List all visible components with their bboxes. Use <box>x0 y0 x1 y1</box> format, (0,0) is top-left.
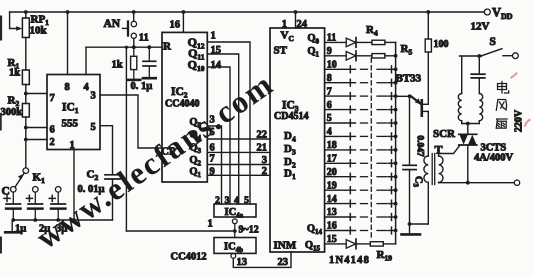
wire to common <box>389 176 396 178</box>
wire 220V bus <box>439 182 515 184</box>
junction pin7 node <box>24 92 28 96</box>
switch S blade <box>482 49 502 56</box>
wire B1 to T primary <box>427 111 429 156</box>
capacitor 0.1u plate bottom <box>143 65 156 67</box>
resistor row 2 <box>372 54 385 58</box>
wire IC4b to INM <box>233 252 291 267</box>
wire AN to R node <box>133 39 135 48</box>
wire AN stub top <box>133 12 135 21</box>
IC U1 555 body <box>47 75 100 150</box>
contact cap3 <box>55 187 61 193</box>
wire diode to R <box>356 55 372 57</box>
wire pin7 to divider <box>26 93 47 95</box>
junction IC4a out <box>233 229 237 233</box>
wire to common <box>389 68 396 70</box>
diode tick <box>349 214 351 221</box>
dash <box>361 122 368 124</box>
T core line 1 <box>431 154 433 185</box>
potentiometer RP1 body <box>22 18 29 38</box>
wire Q10 out <box>325 176 356 178</box>
capacitor C3 plus plate <box>51 203 65 205</box>
diode tick <box>349 79 351 86</box>
svg-text:2: 2 <box>262 166 267 177</box>
diode tick <box>349 160 351 167</box>
dash <box>361 230 368 232</box>
svg-text:100: 100 <box>434 39 449 50</box>
junction pin6 node <box>24 126 28 130</box>
wire RP1 top stub <box>25 12 27 18</box>
junction common line <box>394 148 398 152</box>
wire Q4 to D4 <box>207 138 270 140</box>
wire motor top <box>460 55 482 57</box>
wire pin16 to VDD <box>182 12 184 32</box>
watermark <box>29 65 280 256</box>
wire primary return <box>427 182 429 224</box>
svg-text:3: 3 <box>91 91 96 102</box>
resistor tick <box>391 214 393 221</box>
svg-text:1: 1 <box>282 19 287 30</box>
bubble IC4a output <box>232 219 237 224</box>
junction cap1 bus <box>11 218 15 222</box>
svg-text:16: 16 <box>170 20 181 31</box>
wire cap3 stub <box>57 192 59 204</box>
contact AN top <box>131 21 136 26</box>
junction riser <box>125 46 128 49</box>
resistor tick <box>391 120 393 127</box>
resistor tick <box>391 66 393 73</box>
wire R1 to R2 <box>25 85 27 104</box>
T secondary winding <box>439 156 443 182</box>
wire pin1 to bus <box>73 150 75 221</box>
wire Q6 out <box>325 122 356 124</box>
dash <box>361 135 368 137</box>
junction pin2 node <box>24 138 28 142</box>
dash <box>361 68 368 70</box>
junction common line <box>394 121 398 125</box>
dash <box>377 68 387 70</box>
wire Q1 to D1 <box>207 174 270 176</box>
wire pin6 <box>26 127 47 129</box>
dash <box>361 216 368 218</box>
wire Q7 out <box>325 135 356 137</box>
wire secondary to gate <box>439 145 460 156</box>
wire diode to R <box>356 41 372 43</box>
ground bar <box>5 231 19 234</box>
svg-text:SCR: SCR <box>433 128 456 140</box>
plus sign <box>49 195 55 201</box>
dash <box>377 162 387 164</box>
junction on VDD rail <box>426 10 430 14</box>
UJT base bar <box>420 100 423 115</box>
gate IC4b body <box>214 238 256 254</box>
svg-text:1: 1 <box>208 219 213 230</box>
resistor tick <box>391 106 393 113</box>
dash <box>361 203 368 205</box>
resistor tick <box>391 93 393 100</box>
capacitor C3 minus plate <box>51 207 65 210</box>
wire R to common <box>385 41 396 43</box>
switch AN stem <box>123 27 129 29</box>
capacitor C3 plate top <box>403 164 416 166</box>
wire secondary bottom <box>438 181 440 183</box>
dash <box>377 176 387 178</box>
triac bottom bar <box>459 144 477 146</box>
junction on VDD rail <box>182 10 186 14</box>
svg-text:13: 13 <box>237 257 248 268</box>
ground bar 1k <box>127 79 140 82</box>
junction common line <box>394 135 398 139</box>
wire to 0.1u <box>148 47 150 61</box>
diode tick <box>349 173 351 180</box>
diode D row 2 <box>346 52 356 61</box>
junction common line <box>394 202 398 206</box>
wire emitter <box>396 95 411 97</box>
wire Q4 out <box>325 95 356 97</box>
resistor R2 body <box>22 104 29 118</box>
resistor row 16 <box>370 242 383 246</box>
diode tick <box>349 120 351 127</box>
capacitor 0.1u plate top <box>143 60 156 62</box>
wire to common <box>389 203 396 205</box>
junction common line <box>394 161 398 165</box>
wire C2 to bus <box>112 179 114 220</box>
wire to common <box>389 149 396 151</box>
resistor row 1 <box>372 40 385 44</box>
junction common line <box>394 188 398 192</box>
dash <box>377 149 387 151</box>
junction AN/1k <box>132 45 136 49</box>
capacitor C2 plate bottom <box>105 178 120 180</box>
svg-text:22: 22 <box>257 130 268 141</box>
junction cap3 bus <box>56 218 60 222</box>
wire cap2 to bus <box>34 209 36 220</box>
wire Q3 out <box>325 82 356 84</box>
terminal 220V bottom <box>514 180 519 185</box>
diode tick <box>349 187 351 194</box>
wire Q2 to D2 <box>207 164 270 166</box>
resistor tick <box>391 200 393 207</box>
diode tick <box>349 133 351 140</box>
diode tick <box>349 93 351 100</box>
svg-text:AN: AN <box>104 18 121 30</box>
dash <box>361 95 368 97</box>
wire Q15 out <box>325 243 347 245</box>
scan edge artifacts <box>0 16 2 40</box>
plus sign <box>4 195 10 201</box>
diode tick <box>349 147 351 154</box>
wire pin1/24 to VDD <box>295 12 297 28</box>
wire to common <box>389 122 396 124</box>
wire Q14 out <box>325 230 356 232</box>
wire Q10 to gate <box>207 67 230 204</box>
wire motor to triac <box>467 124 469 135</box>
capacitor C2 plus plate <box>28 203 42 205</box>
wire Q8 out <box>325 149 356 151</box>
capacitor C1 plus plate <box>6 203 20 205</box>
capacitor C1 minus plate <box>6 207 20 210</box>
junction common line <box>394 108 398 112</box>
svg-text:1N4148: 1N4148 <box>329 255 370 266</box>
wire to common <box>389 135 396 137</box>
wire Q5 to gate <box>207 126 221 204</box>
dashed repeat line <box>370 58 372 240</box>
svg-text:7: 7 <box>50 93 55 104</box>
dash <box>361 82 368 84</box>
wire VDD rail <box>10 11 485 13</box>
wire cap1 stub <box>12 192 14 204</box>
wire to common <box>389 109 396 111</box>
wire pin2 <box>26 139 47 141</box>
resistor tick <box>391 227 393 234</box>
svg-text:4A/400V: 4A/400V <box>474 153 514 164</box>
wire NAND out bus <box>126 230 234 232</box>
junction common line <box>394 175 398 179</box>
diode tick <box>349 106 351 113</box>
wire S to terminal <box>503 55 512 57</box>
dash <box>377 203 387 205</box>
wire pin8 to VDD <box>67 12 69 75</box>
wire to common <box>389 162 396 164</box>
junction common line <box>394 229 398 233</box>
wire to common <box>389 189 396 191</box>
svg-text:10k: 10k <box>30 25 48 37</box>
resistor tick <box>391 79 393 86</box>
switch AN actuator bar <box>127 22 129 36</box>
resistor 1k body <box>131 56 137 69</box>
motor aux winding <box>479 94 482 121</box>
wire R to common <box>383 243 395 245</box>
wire pin4 to reset node <box>85 47 87 74</box>
svg-text:ST: ST <box>274 45 288 57</box>
IC U2 CC4040 body <box>162 32 207 182</box>
svg-text:555: 555 <box>62 118 79 130</box>
wire to phase cap <box>478 56 480 74</box>
wire Q2 out <box>325 68 356 70</box>
wire RP1 to R1 <box>25 38 27 71</box>
svg-text:21: 21 <box>257 143 268 154</box>
plus sign <box>26 195 32 201</box>
junction on VDD rail <box>294 10 298 14</box>
capacitor plate bottom <box>471 77 485 79</box>
wire 100 to B2 <box>427 52 429 104</box>
svg-text:6: 6 <box>50 125 55 136</box>
dash <box>377 135 387 137</box>
wire ground bus <box>12 219 112 221</box>
dash <box>361 189 368 191</box>
IC U3 CD4514 body <box>270 28 325 252</box>
contact cap1 <box>11 187 17 193</box>
resistor tick <box>391 160 393 167</box>
junction cap2 bus <box>33 218 37 222</box>
wire primary to gnd node <box>410 223 429 225</box>
svg-text:C: C <box>2 186 10 198</box>
wire R to common <box>385 55 396 57</box>
svg-text:23: 23 <box>278 257 289 268</box>
resistor tick <box>391 147 393 154</box>
terminal VDD <box>484 9 490 15</box>
junction motor/triac <box>466 122 470 126</box>
triac top bar <box>459 133 477 135</box>
svg-text:1: 1 <box>211 31 216 42</box>
wire VDD to 100 <box>427 12 429 39</box>
T core line 2 <box>434 154 436 185</box>
resistor tick <box>391 173 393 180</box>
wire main winding top <box>461 56 463 94</box>
wire to C3 <box>409 96 411 165</box>
wire Q9 out <box>325 162 356 164</box>
svg-text:3: 3 <box>262 155 267 166</box>
junction common line <box>394 94 398 98</box>
wire to common <box>389 95 396 97</box>
diode tick <box>349 227 351 234</box>
capacitor C2 plate top <box>105 174 120 176</box>
wire Q11 out <box>325 189 356 191</box>
resistor R1 body <box>22 70 29 85</box>
wire B2 <box>423 103 429 105</box>
wire IC4a out <box>234 224 236 231</box>
wire RP1 hook <box>10 12 17 29</box>
contact cap2 <box>33 187 39 193</box>
ground bar C3 <box>402 233 421 236</box>
dash <box>377 189 387 191</box>
dash <box>377 230 387 232</box>
svg-text:BT33: BT33 <box>396 73 422 85</box>
terminal 220V top <box>513 53 519 59</box>
svg-text:4: 4 <box>84 82 90 93</box>
diode tick <box>349 66 351 73</box>
watermark flecks <box>512 74 530 126</box>
capacitor plate top <box>471 73 485 75</box>
dash <box>361 162 368 164</box>
junction C3 top <box>408 94 412 98</box>
svg-text:5: 5 <box>91 122 96 133</box>
svg-text:9~12: 9~12 <box>239 225 259 236</box>
dash <box>377 122 387 124</box>
svg-text:24: 24 <box>297 19 308 30</box>
ground bar 0.1u <box>143 77 156 80</box>
wire to common <box>389 216 396 218</box>
junction triac bus <box>466 181 470 185</box>
svg-text:220V: 220V <box>514 109 525 132</box>
wire Q5 out <box>325 109 356 111</box>
wire cap1 to bus <box>12 209 14 220</box>
junction common line <box>394 54 398 58</box>
wire pin3 to CP <box>100 95 162 148</box>
junction common line <box>394 67 398 71</box>
dash <box>361 149 368 151</box>
wire 0.1u to gnd <box>148 66 150 77</box>
wire Q13 out <box>325 216 356 218</box>
junction 0.1u <box>147 45 151 49</box>
dash <box>361 176 368 178</box>
junction C3 primary return <box>408 222 412 226</box>
junction on VDD rail <box>24 10 28 14</box>
capacitor C3 plate bottom <box>403 169 416 171</box>
svg-text:8: 8 <box>65 82 70 93</box>
wire triac to 220V bus <box>467 145 469 183</box>
dash <box>377 216 387 218</box>
dash <box>377 109 387 111</box>
resistor 100 body <box>425 39 431 52</box>
svg-text:2: 2 <box>50 137 55 148</box>
dash <box>361 109 368 111</box>
svg-text:0. 1μ: 0. 1μ <box>131 81 153 92</box>
svg-text:CC4040: CC4040 <box>165 99 199 110</box>
svg-text:R: R <box>163 41 172 53</box>
wire Q12 to gate <box>207 42 250 204</box>
resistor tick <box>391 187 393 194</box>
wire reset to NAND out <box>125 47 127 231</box>
wire to IC4b <box>234 231 236 238</box>
wire cap2 stub <box>34 192 36 204</box>
wire R node <box>86 46 162 48</box>
wire to common <box>389 82 396 84</box>
wire to 1k <box>133 47 135 56</box>
svg-text:300k: 300k <box>1 107 23 118</box>
wire Q1 out <box>325 55 347 57</box>
svg-text:7: 7 <box>210 154 215 165</box>
svg-text:12V: 12V <box>471 21 490 33</box>
motor main winding <box>458 94 461 121</box>
wire ground stub <box>11 220 13 232</box>
svg-text:0.047: 0.047 <box>415 135 425 157</box>
capacitor C2 minus plate <box>28 207 42 210</box>
wire cap to aux winding <box>478 78 480 94</box>
svg-text:S: S <box>490 36 496 48</box>
wire Q11 to gate <box>207 54 238 204</box>
svg-text:INM: INM <box>274 240 297 252</box>
wire Q12 out <box>325 203 356 205</box>
diode tick <box>349 200 351 207</box>
diode D row 1 <box>346 38 356 47</box>
label fan (dian feng shan) <box>496 82 509 129</box>
contact AN bottom <box>131 33 136 38</box>
wire B1 <box>423 110 429 112</box>
junction cap/switch <box>477 54 481 58</box>
svg-text:CC4012: CC4012 <box>171 252 207 263</box>
bubble IC4b output <box>231 254 236 259</box>
svg-text:CD4514: CD4514 <box>274 111 308 122</box>
junction common line <box>394 215 398 219</box>
svg-text:1k: 1k <box>112 60 123 71</box>
svg-text:11: 11 <box>139 33 149 44</box>
junction common line <box>394 81 398 85</box>
wire common collector line <box>395 42 397 244</box>
wire motor bottom <box>462 123 480 125</box>
junction pin1 bus <box>72 218 76 222</box>
wire C3 to gnd <box>409 170 411 234</box>
wire diode to R <box>356 243 370 245</box>
wire cap3 to bus <box>57 209 59 220</box>
wire Q3 to D3 <box>207 151 270 153</box>
wire to common <box>389 230 396 232</box>
junction on VDD rail <box>66 10 70 14</box>
svg-text:1k: 1k <box>9 68 20 79</box>
diode D row 16 <box>346 240 356 249</box>
resistor tick <box>391 133 393 140</box>
dash <box>377 82 387 84</box>
dash <box>377 95 387 97</box>
wire R2 to K1 <box>25 117 27 168</box>
contact K1 common <box>23 168 29 174</box>
gate IC4a body <box>214 204 256 217</box>
wire 1k to gnd <box>133 70 135 79</box>
wire pin5 to C2 <box>100 126 113 175</box>
junction on VDD rail <box>132 10 136 14</box>
switch K1 blade <box>15 173 24 187</box>
wire Q0 out <box>325 41 347 43</box>
T primary winding <box>424 156 428 182</box>
